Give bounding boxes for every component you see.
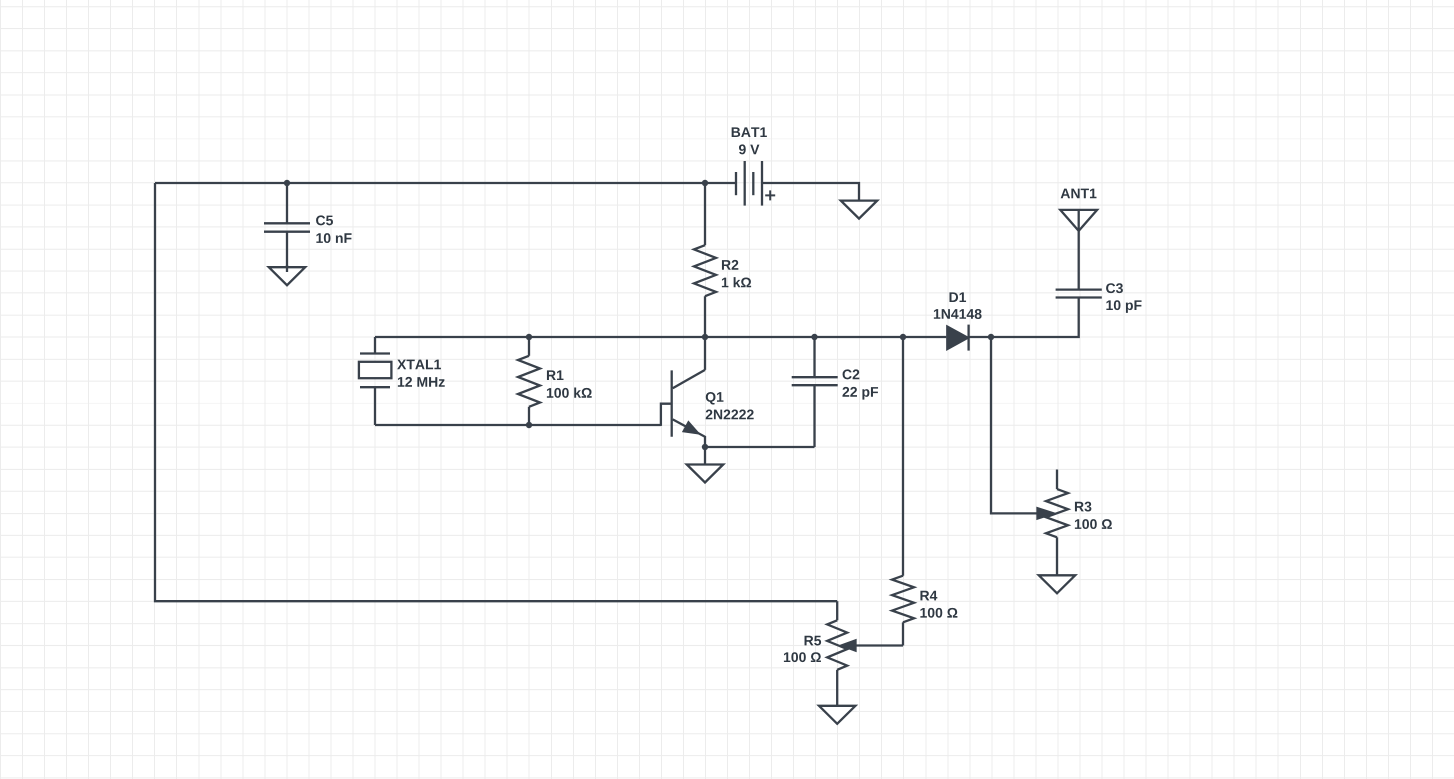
crystal XTAL1 12 MHz [359,337,445,425]
R5 wiper arrowhead [842,640,856,650]
capacitor C5 10 nF [264,183,352,272]
potentiometer R5 100 Ohm [784,601,847,705]
ground below R5 [819,706,855,724]
resistor R1 100 kOhm [518,337,592,425]
resistor R4 100 Ohm [892,337,957,646]
diode D1 1N4148 [934,292,982,350]
ground at battery positive [841,201,877,219]
node junction bus / R4 top [900,334,906,340]
transistor Q1 2N2222 (NPN) [661,337,754,447]
R3 wiper arrowhead [1038,508,1054,518]
battery BAT1 9 V [732,127,776,205]
node junction battery negative / R2 top [702,180,708,186]
ground below C5 [269,265,305,285]
node junction emitter / C2 bottom / ground [702,444,708,450]
wire top rail from left rail to battery negative [155,182,736,184]
ground below R3 [1039,575,1075,593]
node junction bus / R2 bottom / collector [702,334,708,340]
capacitor C3 10 pF [1056,283,1142,313]
antenna ANT1 [1060,189,1097,290]
node junction R1 bottom / loop bottom [526,422,532,428]
wire left rail down and bottom feedback run to R5 [155,183,837,601]
node junction bus / C2 top [811,334,817,340]
wire R4 bottom to R5 wiper [855,644,904,646]
wire battery positive to ground drop [762,183,859,200]
potentiometer R3 100 Ohm [1046,470,1112,576]
wire diode cathode to C3 riser [969,298,1079,338]
wire diode node down to R3 wiper [991,337,1038,513]
wire emitter node to C2 bottom [705,446,815,448]
node junction diode cathode / R3 wiper drop [988,334,994,340]
resistor R2 1 kOhm [694,183,751,337]
ground below Q1 emitter [687,447,723,483]
node junction C5 tap on V+ rail [284,180,290,186]
wire main bus from crystal loop to diode anode [375,336,946,338]
node junction bus / R1 top [526,334,532,340]
capacitor C2 22 pF [792,337,878,447]
wire crystal loop bottom run to Q1 base [375,424,661,426]
